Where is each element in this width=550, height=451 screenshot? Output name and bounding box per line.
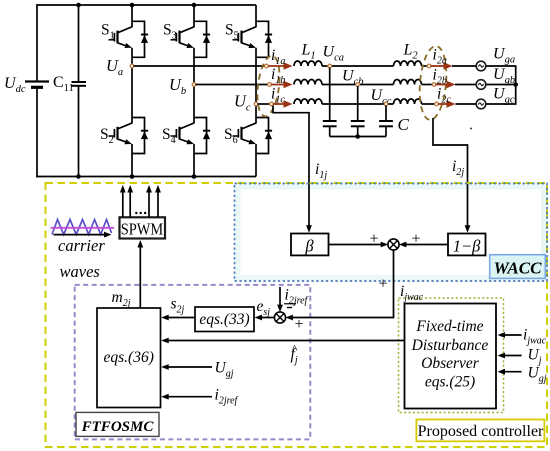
svg-text:FTFOSMC: FTFOSMC	[81, 419, 155, 435]
svg-text:Ugj: Ugj	[528, 365, 547, 385]
leg B wires	[193, 5, 195, 21]
wire SPWM gate arrow 1	[122, 192, 124, 217]
transistor S1	[109, 21, 149, 57]
svg-text:i1j: i1j	[315, 161, 327, 181]
eqs36 block	[97, 308, 161, 408]
svg-text:Observer: Observer	[421, 355, 480, 372]
svg-text:carrier: carrier	[58, 236, 105, 255]
SPWM box	[120, 217, 166, 238]
AC source Ugc	[476, 99, 486, 109]
node i2a	[427, 64, 431, 68]
transistor S4	[171, 118, 211, 154]
wire bottom DC rail	[37, 176, 256, 178]
junction dot capacitor bus	[355, 134, 360, 139]
one minus beta block	[448, 234, 486, 256]
svg-text:eqs.(36): eqs.(36)	[104, 349, 154, 366]
node Ub	[192, 83, 196, 87]
carrier mid line	[51, 227, 115, 229]
beta block	[291, 234, 329, 256]
junction dot grid bus	[513, 82, 518, 87]
junction dot top rail leg A	[130, 3, 135, 8]
FTFOSMC dashed box	[75, 285, 311, 440]
current arrow i1b	[271, 84, 285, 86]
AC source Uga	[476, 61, 486, 71]
stray dot	[470, 128, 472, 130]
observer input Uj	[504, 355, 522, 357]
leg A wires	[131, 5, 133, 21]
capacitor branch a	[329, 68, 331, 122]
svg-text:esj: esj	[257, 298, 271, 318]
outer dashed box Proposed controller	[46, 183, 548, 447]
svg-text:s2j: s2j	[171, 296, 185, 316]
node Ua	[130, 64, 134, 68]
svg-text:Uc: Uc	[234, 92, 251, 114]
svg-text:+: +	[369, 231, 378, 248]
svg-text:S3: S3	[163, 22, 177, 42]
transistor S6	[233, 118, 273, 154]
wire one-minus-beta to multiplier	[402, 244, 448, 246]
eqs33 block	[195, 307, 254, 332]
svg-text:C11: C11	[53, 74, 74, 94]
svg-text:Uca: Uca	[323, 44, 344, 64]
capacitor bottom bus	[330, 136, 386, 138]
svg-text:ijwac: ijwac	[523, 327, 547, 347]
wire i1j tap	[273, 106, 309, 228]
ellipsis dots between gate arrows	[135, 212, 137, 214]
wire i2j tap	[433, 118, 468, 227]
capacitor C11 wire bottom	[78, 86, 80, 177]
svg-text:Uga: Uga	[493, 46, 515, 66]
svg-text:i2a: i2a	[433, 47, 447, 67]
battery Udc plus plate	[25, 80, 49, 82]
wire s2j	[165, 317, 195, 319]
svg-text:Proposed controller: Proposed controller	[418, 423, 544, 440]
inductor L2 phase b	[394, 80, 422, 85]
inductor L2 phase c	[394, 99, 422, 104]
current arrow i2c	[438, 103, 447, 105]
wire battery left leg bottom	[36, 87, 38, 178]
wire m2j	[139, 246, 141, 308]
svg-text:Fixed-time: Fixed-time	[415, 318, 483, 335]
carrier arrow	[54, 234, 106, 236]
wire top DC rail	[37, 4, 256, 6]
wire SPWM gate arrow 2	[129, 192, 131, 217]
node i1c	[270, 102, 274, 106]
capacitor branch b	[357, 86, 359, 121]
svg-text:waves: waves	[60, 262, 100, 281]
svg-text:L2: L2	[403, 42, 419, 62]
svg-text:i2jref: i2jref	[215, 387, 239, 407]
svg-text:C: C	[398, 115, 410, 134]
inductor L1 phase a	[294, 61, 322, 66]
capacitor C11 wire top	[78, 5, 80, 82]
leg C wires	[255, 5, 257, 21]
inductor L2 phase a	[394, 61, 422, 66]
svg-text:Ugj: Ugj	[215, 360, 234, 380]
svg-text:S4: S4	[162, 126, 176, 146]
svg-text:Ub: Ub	[169, 75, 186, 97]
junction dot bottom rail leg B	[192, 174, 197, 179]
svg-text:Uj: Uj	[528, 347, 542, 367]
wire SPWM gate arrow 3	[148, 192, 150, 217]
summing junction error	[274, 312, 285, 323]
svg-text:i2j: i2j	[452, 158, 464, 178]
junction dot top rail C11	[76, 3, 81, 8]
svg-text:SPWM: SPWM	[121, 220, 164, 239]
svg-text:Ua: Ua	[106, 56, 123, 78]
transistor S3	[171, 21, 211, 57]
wire beta to multiplier	[329, 244, 386, 246]
WACC region tint	[238, 187, 544, 278]
node Uca	[328, 64, 332, 68]
WACC dotted box	[235, 184, 548, 282]
svg-text:i1b: i1b	[271, 66, 285, 86]
node Ucc	[384, 102, 388, 106]
svg-text:S5: S5	[225, 22, 239, 42]
junction dot bottom rail C11	[76, 174, 81, 179]
svg-text:L1: L1	[301, 42, 316, 62]
svg-text:S2: S2	[100, 126, 114, 146]
observer input Ugj	[504, 371, 522, 373]
svg-text:Ugb: Ugb	[493, 66, 515, 86]
wire ijwac	[289, 250, 394, 318]
transistor S5	[233, 21, 273, 57]
svg-text:+: +	[411, 231, 420, 248]
sensor ellipse i1	[254, 54, 282, 117]
svg-text:Udc: Udc	[4, 75, 26, 95]
inductor L1 phase c	[294, 99, 322, 104]
svg-text:i1a: i1a	[271, 47, 285, 67]
svg-text:eqs.(33): eqs.(33)	[199, 311, 249, 328]
wire i2jref input	[165, 396, 212, 398]
transistor S2	[109, 118, 149, 154]
svg-text:S6: S6	[224, 126, 238, 146]
sensor ellipse i2	[417, 45, 449, 121]
svg-text:Disturbance: Disturbance	[411, 337, 489, 354]
junction dot bottom rail leg A	[130, 174, 135, 179]
AC source Ugb	[476, 80, 486, 90]
current arrow i1a	[268, 65, 285, 67]
wire grid bus	[515, 66, 517, 104]
wire i2jref reference arrow	[279, 287, 281, 307]
FTFOSMC label box	[76, 412, 159, 436]
observer input ijwac	[504, 334, 522, 336]
observer block	[405, 304, 497, 409]
node i2b	[432, 83, 436, 87]
wire Ugj input	[165, 366, 212, 368]
Proposed controller label box	[416, 420, 544, 442]
junction dot top rail leg B	[192, 3, 197, 8]
capacitor branch c	[385, 106, 387, 122]
current arrow i2b	[436, 84, 448, 86]
wire SPWM gate arrow 4	[157, 192, 159, 217]
wire phase b	[196, 84, 269, 86]
carrier wave	[52, 220, 112, 235]
current arrow i1c	[273, 103, 285, 105]
svg-text:Ugc: Ugc	[493, 86, 515, 106]
svg-text:S1: S1	[101, 22, 115, 42]
svg-text:i2c: i2c	[437, 86, 451, 106]
current arrow i2a	[431, 65, 445, 67]
svg-text:+: +	[294, 316, 303, 333]
WACC label box	[490, 255, 546, 279]
svg-text:+: +	[378, 276, 387, 293]
node i2c	[435, 102, 439, 106]
svg-text:m2j: m2j	[112, 289, 131, 309]
svg-text:ijwac: ijwac	[400, 283, 424, 303]
wire battery left leg top	[36, 4, 38, 82]
wire phase c	[258, 103, 271, 105]
wire fj hat	[165, 340, 405, 342]
node i1a	[265, 64, 269, 68]
node Uc	[254, 102, 258, 106]
svg-text:^: ^	[292, 342, 298, 356]
node i1b	[268, 83, 272, 87]
inductor L1 phase b	[294, 80, 322, 85]
minus sign i2jref input	[287, 307, 292, 309]
battery Udc minus plate	[31, 86, 43, 89]
node Ucb	[356, 83, 360, 87]
svg-text:β: β	[304, 237, 314, 256]
multiplier junction WACC	[388, 239, 399, 250]
wire esj	[258, 317, 275, 319]
svg-text:eqs.(25): eqs.(25)	[425, 374, 475, 391]
svg-text:WACC: WACC	[494, 259, 543, 278]
capacitor C11 plates	[72, 81, 87, 83]
wire phase a	[134, 65, 266, 67]
svg-text:1−β: 1−β	[453, 237, 481, 256]
observer dotted box	[399, 298, 504, 413]
